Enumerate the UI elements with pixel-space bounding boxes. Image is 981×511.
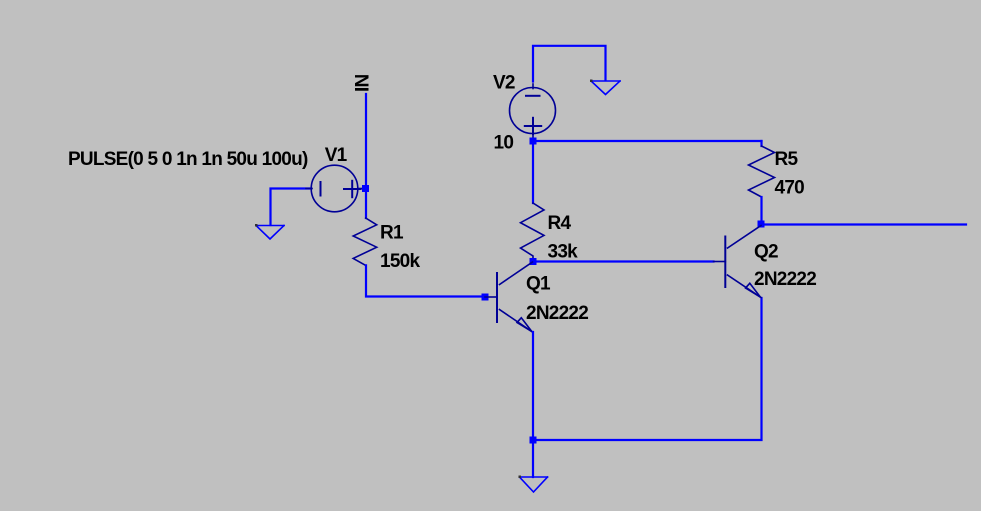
junction node10: [530, 138, 537, 145]
svg-text:Q2: Q2: [754, 242, 778, 263]
wire R4 to Q2 base: [533, 260, 714, 262]
svg-text:2N2222: 2N2222: [754, 269, 816, 290]
junction Q1 base: [482, 294, 489, 301]
voltage source V2: [510, 84, 556, 139]
resistor R1: [353, 218, 377, 265]
ground G2: [590, 80, 620, 95]
resistor R4: [521, 203, 545, 261]
wire bottom rail: [533, 298, 762, 440]
transistor Q1: [485, 262, 533, 332]
svg-text:R4: R4: [548, 213, 572, 234]
svg-text:R1: R1: [380, 223, 404, 244]
resistor R5: [760, 141, 762, 146]
svg-text:2N2222: 2N2222: [526, 303, 588, 324]
wire node10: [533, 140, 762, 142]
ground G1: [255, 224, 284, 239]
wire V1 minus to ground: [271, 189, 312, 226]
wire IN net vertical: [365, 94, 367, 218]
junction bottom: [530, 437, 537, 444]
svg-text:470: 470: [775, 178, 805, 199]
svg-text:R5: R5: [775, 149, 799, 170]
svg-text:IN: IN: [353, 74, 374, 92]
junction R4/Q1 collector: [530, 258, 537, 265]
wire node10 down to R4: [532, 141, 534, 203]
svg-text:10: 10: [494, 133, 514, 154]
voltage source V1: [306, 165, 364, 212]
wire V2 top to ground: [533, 46, 606, 82]
wire Q1 emitter down: [532, 332, 534, 477]
junction V1-IN: [362, 185, 369, 192]
svg-text:V1: V1: [325, 145, 348, 166]
svg-text:PULSE(0 5 0 1n 1n 50u 100u): PULSE(0 5 0 1n 1n 50u 100u): [68, 149, 308, 170]
ground G3: [519, 476, 548, 493]
junction R5/Q2 collector: [758, 221, 765, 228]
svg-text:33k: 33k: [548, 242, 579, 263]
svg-text:V2: V2: [493, 72, 515, 93]
svg-text:150k: 150k: [380, 251, 420, 272]
transistor Q2: [714, 226, 762, 298]
wire output right: [761, 223, 966, 225]
svg-text:Q1: Q1: [526, 274, 551, 295]
wire R1 to Q1 base: [366, 265, 483, 296]
